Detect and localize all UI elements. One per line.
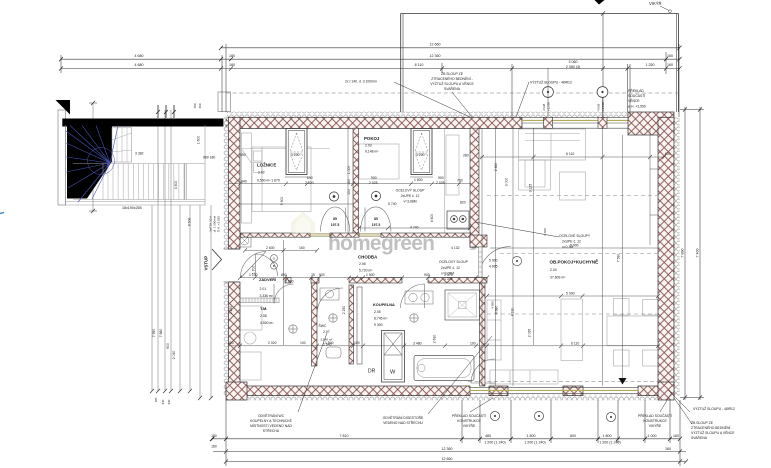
svg-text:PŘEKLAD SOUČÁSTÍ: PŘEKLAD SOUČÁSTÍ: [452, 413, 486, 418]
svg-text:2 420: 2 420: [494, 163, 498, 172]
svg-text:POKOJ: POKOJ: [364, 136, 380, 141]
kitchen counter along east: [487, 300, 501, 360]
svg-text:100: 100: [347, 189, 351, 195]
interior wall B pokoj-living: [470, 128, 479, 247]
svg-text:2x I 140, d. 3 100mm: 2x I 140, d. 3 100mm: [345, 80, 377, 84]
stray blue dash left edge: [0, 213, 4, 214]
svg-text:197.5: 197.5: [372, 223, 381, 227]
bottom dim row 3: [226, 461, 686, 463]
svg-text:+2,530: +2,530: [601, 102, 605, 111]
svg-text:3 382: 3 382: [135, 152, 144, 156]
interior wall A loznice-pokoj: [353, 128, 359, 234]
room labels: [257, 136, 598, 347]
svg-text:2.06: 2.06: [359, 262, 366, 266]
svg-text:180: 180: [154, 397, 158, 402]
top annotation texts: [345, 71, 646, 109]
svg-text:4 995: 4 995: [489, 265, 498, 269]
window band pier under column 548: [544, 117, 553, 128]
interior wall B corner stub: [470, 235, 487, 247]
svg-text:85: 85: [374, 217, 378, 221]
svg-text:1 800: 1 800: [527, 434, 536, 438]
svg-text:4 938: 4 938: [542, 103, 546, 111]
steel column annotations: [388, 189, 591, 282]
interior wall C: [312, 283, 318, 366]
svg-text:160: 160: [347, 179, 351, 185]
bottom column circles: [490, 411, 615, 421]
svg-text:1 375: 1 375: [444, 273, 453, 277]
svg-text:3 060: 3 060: [569, 60, 578, 64]
svg-text:390: 390: [240, 153, 246, 157]
bottom annotation texts: [250, 413, 672, 433]
top dim row 1: [221, 47, 680, 49]
bottom wall pier: [563, 386, 583, 396]
svg-text:ŽB SLOUP ZE: ŽB SLOUP ZE: [441, 71, 464, 76]
svg-text:T.M.: T.M.: [260, 306, 267, 311]
winder treads upper: [112, 128, 132, 162]
svg-text:900: 900: [438, 176, 444, 180]
svg-text:1 800: 1 800: [603, 434, 612, 438]
svg-text:197.5: 197.5: [331, 223, 340, 227]
watermark text: [328, 232, 434, 255]
interior wall E thin: [357, 287, 362, 364]
svg-text:800: 800: [570, 434, 576, 438]
svg-text:1 250: 1 250: [646, 63, 655, 67]
svg-text:5 900: 5 900: [280, 197, 284, 206]
zadveri closet: [240, 306, 262, 330]
svg-text:700: 700: [457, 179, 463, 183]
washbasin wc: [320, 288, 339, 300]
steel column circle living room: [512, 256, 521, 265]
exterior top wall left segment: [226, 117, 522, 128]
svg-text:Š.H. +2,020: Š.H. +2,020: [216, 216, 221, 232]
bed loznice: [252, 147, 311, 212]
svg-text:890: 890: [307, 176, 313, 180]
svg-text:3 200: 3 200: [291, 153, 300, 157]
svg-text:ODVĚTRÁNÍ WC: ODVĚTRÁNÍ WC: [258, 413, 285, 418]
svg-text:2.05: 2.05: [374, 310, 381, 314]
vstup door arc: [240, 252, 266, 279]
svg-text:940: 940: [161, 399, 165, 404]
svg-text:2 250: 2 250: [229, 306, 233, 315]
svg-text:7 400: 7 400: [696, 249, 700, 258]
dormer centre extension: [602, 14, 604, 118]
svg-text:1 500: 1 500: [366, 273, 375, 277]
svg-text:1 200 (1 240): 1 200 (1 240): [484, 441, 505, 445]
svg-text:100: 100: [470, 246, 476, 250]
window bay loznice: [286, 129, 307, 175]
bottom dim row 1: [212, 438, 680, 440]
svg-text:green: green: [381, 232, 434, 255]
svg-text:340: 340: [241, 180, 247, 184]
interior wall H2 below corridor: [285, 278, 487, 284]
svg-text:160: 160: [665, 447, 671, 451]
interior wall H1 below bedrooms: [241, 233, 471, 237]
top dimension labels: [135, 42, 674, 69]
door arcs: [256, 207, 512, 383]
stair enclosure left wall: [58, 110, 66, 205]
svg-text:ŠWC: ŠWC: [319, 323, 327, 328]
svg-text:1 200 (1 240): 1 200 (1 240): [599, 441, 620, 445]
svg-text:480: 480: [485, 434, 491, 438]
entry door opening jambs: [224, 248, 241, 250]
svg-text:ZTRACENÉHO BEDNĚNÍ -: ZTRACENÉHO BEDNĚNÍ -: [431, 76, 472, 81]
svg-text:SVAŘENA: SVAŘENA: [444, 86, 461, 91]
svg-text:180: 180: [211, 434, 217, 438]
svg-text:STŘECHU: STŘECHU: [263, 428, 280, 433]
svg-text:SVAŘENA: SVAŘENA: [691, 435, 708, 440]
headroom dashed line 2: [500, 253, 658, 255]
blue winder lines: [66, 126, 118, 203]
svg-text:85: 85: [333, 217, 337, 221]
svg-text:2 028: 2 028: [369, 181, 378, 185]
svg-text:12 360: 12 360: [430, 54, 441, 58]
svg-text:KONSTRUKCE: KONSTRUKCE: [643, 419, 667, 423]
svg-text:820: 820: [460, 201, 466, 205]
svg-text:ZÁDVEŘÍ: ZÁDVEŘÍ: [259, 277, 277, 282]
svg-text:37,609 m²: 37,609 m²: [550, 276, 566, 280]
svg-text:+2,530: +2,530: [547, 102, 551, 111]
svg-text:9,148 m²: 9,148 m²: [365, 150, 379, 154]
headroom dashed line 3: [487, 313, 658, 315]
svg-text:1 375: 1 375: [444, 277, 453, 281]
wardrobe loznice: [242, 133, 252, 223]
svg-text:VIKÝŘE: VIKÝŘE: [649, 423, 662, 428]
svg-text:OCELOVÝ SLOUP: OCELOVÝ SLOUP: [396, 189, 426, 193]
exterior left wall lower: [229, 282, 241, 396]
bottom dimension labels: [340, 434, 680, 461]
washbasin koupelna: [405, 291, 433, 304]
svg-text:100: 100: [470, 342, 476, 346]
svg-text:VIKÝŘ: VIKÝŘ: [649, 1, 662, 6]
svg-text:3,336 m²: 3,336 m²: [260, 294, 274, 298]
svg-text:KOUPELNA: KOUPELNA: [373, 302, 395, 307]
shower koupelna: [445, 290, 480, 320]
interior dimension chain lines: [228, 129, 664, 387]
svg-text:LOŽNICE: LOŽNICE: [257, 163, 276, 168]
svg-text:OCELOVÝ SLOUP: OCELOVÝ SLOUP: [439, 260, 469, 264]
section arrow on line 622: [619, 378, 627, 385]
svg-text:2 020: 2 020: [305, 181, 314, 185]
top wall window band: [522, 118, 630, 129]
svg-text:2 020: 2 020: [543, 228, 547, 236]
svg-text:5 740: 5 740: [388, 202, 397, 206]
svg-text:VÝZTUŽ SLOUPU A VĚNCE: VÝZTUŽ SLOUPU A VĚNCE: [691, 430, 735, 435]
black wedge top-left of stair wall: [56, 100, 71, 115]
svg-text:7 880: 7 880: [159, 329, 163, 338]
svg-text:12 360: 12 360: [442, 447, 453, 451]
svg-text:ø.H. +2,550: ø.H. +2,550: [628, 105, 646, 109]
svg-text:VĚNCE: VĚNCE: [628, 98, 640, 103]
svg-text:VIKÝŘE: VIKÝŘE: [463, 423, 476, 428]
tm door arc: [274, 284, 294, 304]
svg-text:ŽB SLOUP ZE: ŽB SLOUP ZE: [691, 420, 714, 425]
svg-text:KOUPELNY A TECHNICKÉ: KOUPELNY A TECHNICKÉ: [250, 418, 292, 423]
svg-text:900: 900: [319, 273, 325, 277]
washer column shaft: [382, 331, 405, 383]
headroom dashed line living room: [487, 195, 658, 197]
interior wall D: [349, 285, 354, 364]
extension verticals bottom: [225, 400, 227, 466]
chodba-living door arc: [479, 247, 511, 278]
svg-text:2 600: 2 600: [266, 246, 275, 250]
svg-text:980 180: 980 180: [203, 156, 215, 160]
svg-text:4 680: 4 680: [135, 63, 144, 67]
eaves dashed line: [226, 92, 678, 94]
dormer rectangle: [400, 14, 402, 113]
svg-text:1 800: 1 800: [414, 178, 423, 182]
kitchen bottom counter: [490, 370, 558, 384]
svg-text:75: 75: [311, 273, 315, 277]
svg-text:9 300: 9 300: [374, 323, 383, 327]
exterior right wall: [658, 117, 674, 396]
svg-text:4 680: 4 680: [491, 301, 495, 309]
exterior left wall upper: [224, 117, 229, 249]
svg-text:900: 900: [166, 343, 170, 349]
dining table: [607, 316, 664, 346]
svg-text:3 500: 3 500: [174, 181, 178, 190]
svg-text:1 700: 1 700: [252, 266, 256, 275]
kitchen island: [561, 299, 583, 361]
svg-text:180: 180: [229, 54, 235, 58]
svg-text:890: 890: [281, 273, 287, 277]
svg-text:SOUČÁSTÍ: SOUČÁSTÍ: [628, 93, 645, 98]
svg-text:2 035: 2 035: [528, 329, 532, 338]
right margin dim columns: [684, 107, 686, 400]
svg-text:2 028: 2 028: [436, 181, 445, 185]
svg-text:2xUPE č. 12: 2xUPE č. 12: [441, 266, 460, 270]
stair outline: [66, 125, 206, 205]
cleaning sink chodba corner: [238, 234, 251, 247]
svg-text:18x190x265: 18x190x265: [122, 206, 142, 210]
svg-text:5 900: 5 900: [570, 244, 579, 248]
svg-text:6 110: 6 110: [566, 152, 574, 156]
svg-text:12 660: 12 660: [442, 457, 453, 461]
steel column circles in bedrooms: [329, 191, 380, 201]
svg-text:5 000: 5 000: [566, 292, 575, 296]
svg-text:4,500 m²: 4,500 m²: [260, 321, 274, 325]
svg-text:v=3,68M: v=3,68M: [403, 200, 416, 204]
svg-text:7 890: 7 890: [681, 249, 685, 258]
svg-text:100: 100: [354, 341, 360, 345]
svg-text:CHODBA: CHODBA: [358, 255, 378, 260]
rotated small labels: [152, 103, 621, 359]
svg-text:VÝZTUŽ SLOUPU A VĚNCE: VÝZTUŽ SLOUPU A VĚNCE: [430, 81, 474, 86]
svg-text:ZTRACENÉHO BEDNĚNÍ -: ZTRACENÉHO BEDNĚNÍ -: [691, 425, 732, 430]
svg-text:VSTUP: VSTUP: [204, 256, 209, 271]
svg-text:180: 180: [193, 103, 197, 108]
svg-text:8 110: 8 110: [415, 63, 424, 67]
svg-text:7 590: 7 590: [617, 254, 621, 263]
zadveri striped bench band: [240, 298, 279, 303]
bottom wall pier: [638, 386, 664, 396]
stair flight boundary: [66, 164, 206, 202]
bottom wall pier: [489, 386, 508, 396]
stair black winder mass: [67, 127, 112, 199]
svg-text:160: 160: [673, 434, 679, 438]
svg-text:600: 600: [665, 152, 671, 156]
svg-text:460: 460: [198, 103, 202, 108]
door leaf micro labels: [331, 217, 381, 227]
small ticks above stair bar: [156, 105, 176, 118]
svg-text:PŘEKLAD SOUČÁSTÍ: PŘEKLAD SOUČÁSTÍ: [638, 413, 672, 418]
stair walkline ticks: [89, 103, 97, 211]
floor drain circles: [289, 314, 418, 333]
svg-text:1 940: 1 940: [325, 341, 334, 345]
terrace door arc: [471, 359, 495, 383]
koupelna door arc: [401, 284, 425, 308]
bottom wall corner block: [658, 382, 674, 400]
svg-text:160: 160: [667, 63, 673, 67]
svg-text:OB.POKOJ+KUCHYNĚ: OB.POKOJ+KUCHYNĚ: [550, 258, 599, 265]
lintel tan segments on H1: [310, 233, 330, 237]
wc door arc: [317, 288, 343, 313]
svg-text:2 620: 2 620: [285, 280, 294, 284]
svg-text:9,500 m² 1 670: 9,500 m² 1 670: [257, 179, 280, 183]
svg-text:4 740: 4 740: [410, 226, 419, 230]
svg-text:5 900: 5 900: [489, 259, 498, 263]
door jamb strip chodba-living: [479, 247, 483, 277]
svg-text:4 680: 4 680: [495, 306, 499, 315]
watermark house icon: [292, 212, 315, 233]
svg-text:6 110: 6 110: [571, 342, 579, 346]
window bay pokoj: [411, 129, 432, 175]
top dim row 2: [61, 58, 680, 60]
svg-text:W: W: [390, 370, 396, 376]
vstup arrow: [212, 249, 222, 270]
svg-text:4 132: 4 132: [451, 246, 460, 250]
svg-text:2.07: 2.07: [323, 330, 330, 334]
svg-text:5,720 m²: 5,720 m²: [359, 269, 373, 273]
svg-text:OCELOVÉ SLOUPY: OCELOVÉ SLOUPY: [559, 233, 591, 238]
svg-text:VÝZTUŽ SLOUPU - 4ØR12: VÝZTUŽ SLOUPU - 4ØR12: [530, 80, 572, 85]
loznice door dome: [321, 207, 350, 232]
leader lines annotations: [298, 6, 692, 424]
svg-text:900: 900: [424, 273, 430, 277]
svg-text:100: 100: [300, 341, 306, 345]
left stair extension columns: [93, 103, 211, 398]
svg-text:160: 160: [667, 54, 673, 58]
front hall door arc: [256, 254, 278, 276]
vikyr arrowhead: [595, 0, 605, 5]
svg-text:2.08: 2.08: [260, 314, 267, 318]
svg-text:2xUPE č. 12: 2xUPE č. 12: [401, 194, 420, 198]
svg-text:ODVĚTRÁNÍ DIGESTOŘE: ODVĚTRÁNÍ DIGESTOŘE: [383, 415, 424, 420]
svg-text:home: home: [328, 232, 381, 255]
svg-text:12 660: 12 660: [430, 42, 441, 46]
eaves dashed line above right wing windows: [468, 381, 664, 383]
extension verticals top: [60, 55, 62, 73]
svg-text:9 506: 9 506: [188, 218, 192, 227]
bathtub: [414, 356, 474, 381]
stove symbol: [447, 211, 469, 229]
steel columns on eaves: [542, 68, 608, 117]
svg-text:VEDENO NAD STŘECHU: VEDENO NAD STŘECHU: [383, 420, 423, 425]
exterior bottom wall left solid segment: [226, 386, 470, 396]
stair top black bar: [62, 119, 223, 127]
svg-text:3 000: 3 000: [505, 178, 509, 187]
bottom-left corner block: [226, 382, 247, 400]
svg-text:VÝZTUŽ SLOUPU - 4ØR12: VÝZTUŽ SLOUPU - 4ØR12: [693, 406, 735, 411]
interior wall F koupelna right: [480, 283, 486, 386]
window band pier under column 602: [598, 117, 607, 128]
insulation bubbles bottom wall: [227, 395, 658, 401]
desk pokoj: [444, 129, 446, 234]
svg-text:2 250: 2 250: [342, 306, 346, 315]
lower flight treads: [103, 164, 184, 200]
svg-text:3 480: 3 480: [413, 342, 422, 346]
toilet wc: [326, 347, 341, 358]
svg-text:2.02: 2.02: [258, 171, 265, 175]
svg-text:1 600: 1 600: [197, 136, 201, 145]
pokoj door dome: [361, 207, 392, 232]
svg-text:2 030: 2 030: [172, 351, 176, 360]
scattered small dimension labels: [135, 152, 671, 346]
svg-text:1 000: 1 000: [347, 166, 351, 175]
svg-text:4 600: 4 600: [430, 214, 434, 223]
bottom wall window bands: [470, 387, 638, 393]
svg-text:4 680: 4 680: [135, 54, 144, 58]
svg-text:KONSTRUKCE: KONSTRUKCE: [457, 419, 481, 423]
svg-text:1 000: 1 000: [648, 434, 657, 438]
svg-text:2.01: 2.01: [260, 287, 267, 291]
svg-text:2 630: 2 630: [433, 335, 437, 344]
left margin tiny labels: [154, 397, 217, 448]
svg-text:1 200 (1 240): 1 200 (1 240): [524, 441, 545, 445]
chimney box above top-left wall: [218, 92, 231, 112]
svg-text:7 950: 7 950: [152, 329, 156, 338]
right margin labels: [681, 249, 700, 258]
svg-text:940: 940: [167, 399, 171, 404]
bottom dim row 2: [213, 451, 686, 453]
svg-text:4 130: 4 130: [511, 308, 515, 317]
svg-text:7 810: 7 810: [340, 434, 349, 438]
svg-text:160: 160: [299, 246, 305, 250]
svg-text:DR: DR: [368, 369, 376, 375]
svg-text:160: 160: [211, 445, 217, 449]
svg-text:2 380 (3): 2 380 (3): [566, 65, 580, 69]
svg-text:8,745 m²: 8,745 m²: [374, 317, 388, 321]
bed head line across: [241, 148, 330, 150]
svg-text:280: 280: [463, 154, 469, 158]
exterior top wall right corner block: [628, 112, 674, 135]
svg-text:900: 900: [371, 176, 377, 180]
svg-text:PŘEKLAD: PŘEKLAD: [628, 88, 644, 93]
tm water heater and cabinet: [239, 352, 261, 380]
sofa living: [519, 129, 586, 160]
svg-text:4 938: 4 938: [597, 103, 601, 111]
svg-text:400: 400: [228, 341, 234, 345]
electrical symbols G B: [271, 255, 278, 262]
svg-text:MÍSTNOSTI VEDENO NAD: MÍSTNOSTI VEDENO NAD: [250, 424, 292, 428]
svg-text:180: 180: [229, 63, 235, 67]
svg-text:2.04: 2.04: [550, 268, 557, 272]
svg-text:3 125: 3 125: [529, 184, 533, 193]
svg-text:3 200: 3 200: [416, 153, 425, 157]
svg-text:2.03: 2.03: [365, 144, 372, 148]
top dim row 3: [61, 68, 680, 70]
insulation bubbles top wall: [227, 112, 628, 118]
svg-text:2 020: 2 020: [268, 341, 277, 345]
